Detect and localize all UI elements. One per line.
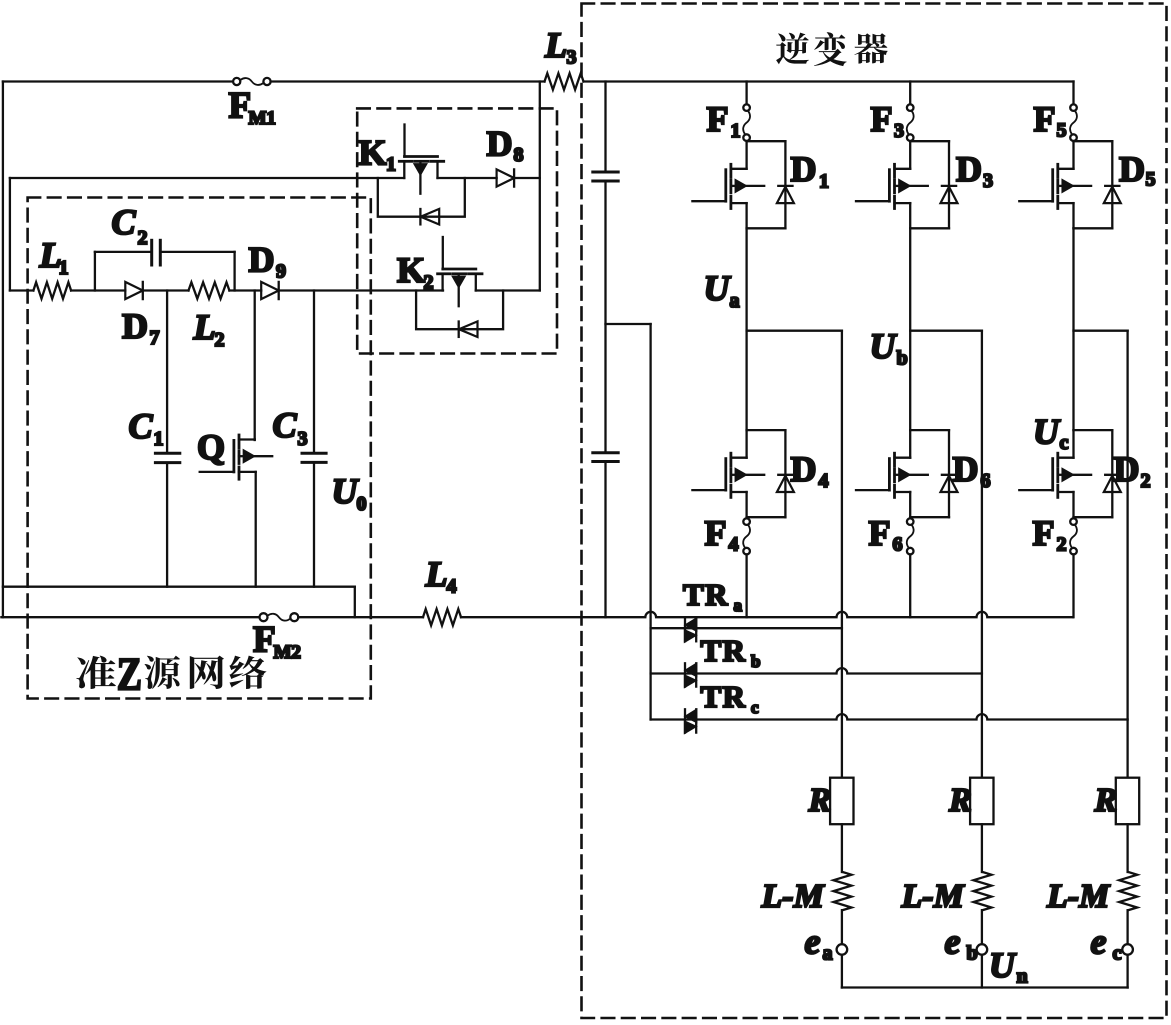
svg-text:2: 2 xyxy=(1057,534,1067,556)
svg-text:2: 2 xyxy=(1141,470,1151,492)
svg-text:b: b xyxy=(751,652,760,671)
svg-text:L: L xyxy=(193,307,216,347)
wire K2 to right vertical xyxy=(476,289,540,291)
transistor Q source wire xyxy=(255,472,257,587)
svg-text:U: U xyxy=(1033,412,1061,452)
wire triac feed column xyxy=(649,324,651,720)
svg-text:6: 6 xyxy=(893,534,903,556)
inductor L1 xyxy=(33,282,71,298)
wire C2 top left xyxy=(95,251,152,253)
wire leg a top lead xyxy=(745,82,747,105)
capacitor C2 xyxy=(150,240,153,265)
inductor L3 xyxy=(545,73,584,89)
inductor L-M phase a xyxy=(834,872,852,910)
svg-text:C: C xyxy=(129,406,154,446)
svg-text:F: F xyxy=(1033,513,1055,553)
svg-text:F: F xyxy=(707,99,729,139)
capacitor C1 xyxy=(155,452,179,455)
wire DC-link lower xyxy=(604,462,606,618)
triac TRc xyxy=(684,709,686,732)
svg-text:D: D xyxy=(953,449,979,489)
svg-text:U: U xyxy=(332,471,360,511)
wire triac row b with hop xyxy=(651,668,982,673)
svg-text:M1: M1 xyxy=(249,108,276,129)
svg-text:e: e xyxy=(1091,922,1107,962)
svg-text:Q: Q xyxy=(197,427,225,467)
fuse F4 xyxy=(743,518,750,525)
wire leg c top lead xyxy=(1072,82,1074,105)
wire R to L-M phase a xyxy=(841,824,843,872)
wire leg c bottom lead to DC- rail xyxy=(1072,554,1074,617)
svg-text:L: L xyxy=(544,25,567,65)
quasi-Z network dashed box xyxy=(28,198,371,699)
svg-text:K: K xyxy=(359,133,387,173)
fuse F2 xyxy=(1070,518,1077,525)
svg-text:5: 5 xyxy=(1146,169,1156,191)
wire phase a output xyxy=(747,330,842,332)
wire leg b top lead xyxy=(909,82,911,105)
capacitor C3 xyxy=(302,452,326,455)
svg-text:9: 9 xyxy=(276,261,286,283)
svg-text:D: D xyxy=(249,240,275,280)
capacitor DC-link upper xyxy=(593,171,618,174)
wire bus right edge xyxy=(354,587,356,618)
capacitor C1 branch xyxy=(166,291,168,454)
wire top DC+ rail continued xyxy=(271,80,545,82)
svg-text:L: L xyxy=(425,554,448,594)
svg-text:F: F xyxy=(253,620,276,661)
svg-text:a: a xyxy=(734,596,743,615)
wire bottom DC- rail left xyxy=(1,616,259,618)
source ec xyxy=(1122,944,1133,955)
wire load column a xyxy=(841,331,843,778)
svg-text:4: 4 xyxy=(729,534,739,556)
transistor leg b upper MOSFET xyxy=(909,141,911,169)
svg-text:D: D xyxy=(791,149,817,189)
transistor Q xyxy=(254,438,256,441)
svg-text:TR: TR xyxy=(683,577,729,612)
wire eb to neutral xyxy=(981,955,983,988)
wire C1 bottom xyxy=(166,463,168,587)
svg-text:L-M: L-M xyxy=(901,878,966,915)
svg-text:D: D xyxy=(1119,149,1145,189)
wire K1 input from node A xyxy=(10,177,404,179)
fuse F6 xyxy=(907,518,914,525)
transistor leg a lower MOSFET xyxy=(745,430,747,458)
wire capacitor midpoint tap xyxy=(606,323,651,325)
diode D9 xyxy=(261,282,279,299)
capacitor C3 branch xyxy=(313,291,315,454)
fuse FM1 xyxy=(233,78,240,85)
svg-text:1: 1 xyxy=(154,428,164,450)
triac TRa xyxy=(684,618,686,641)
svg-text:4: 4 xyxy=(447,576,457,598)
svg-text:R: R xyxy=(808,782,832,819)
wire D7 to L2 with node to C1 xyxy=(144,289,189,291)
inverter dashed box xyxy=(582,4,1167,1019)
svg-text:0: 0 xyxy=(357,493,367,515)
svg-text:L-M: L-M xyxy=(761,878,826,915)
wire triac row c with hops xyxy=(651,714,1128,719)
wire node A vertical xyxy=(9,178,11,291)
wire load column b xyxy=(981,331,983,778)
svg-text:1: 1 xyxy=(386,154,396,176)
wire load column c xyxy=(1126,331,1128,778)
wire right vertical of switch block xyxy=(539,82,541,291)
wire main row left xyxy=(10,289,34,291)
transistor K1 xyxy=(403,125,405,157)
svg-text:M2: M2 xyxy=(274,642,301,663)
diode D7 xyxy=(125,282,143,299)
wire DC-link upper xyxy=(604,82,606,173)
wire L-M to source ec xyxy=(1126,910,1128,944)
svg-text:F: F xyxy=(705,513,727,553)
capacitor C2 branch left xyxy=(94,252,96,291)
source eb xyxy=(977,944,988,955)
svg-text:a: a xyxy=(730,290,740,312)
wire leg a bottom lead to DC- rail xyxy=(745,554,747,617)
svg-text:c: c xyxy=(1113,943,1122,965)
svg-text:K: K xyxy=(397,250,425,290)
svg-text:R: R xyxy=(1094,782,1118,819)
transistor K2 xyxy=(442,237,444,269)
svg-text:R: R xyxy=(948,782,972,819)
capacitor DC-link lower xyxy=(593,451,618,454)
label quasi-Z source network 准Z源网络 xyxy=(76,656,115,689)
wire D9 to K2 xyxy=(279,289,443,291)
resistor R phase a xyxy=(830,778,853,825)
diode D5 is drawn inside the cell above; phase column wire xyxy=(1072,228,1074,430)
svg-text:1: 1 xyxy=(731,120,741,142)
svg-text:Z: Z xyxy=(117,649,142,701)
label inverter 逆变器 xyxy=(776,33,809,65)
svg-text:3: 3 xyxy=(298,428,308,450)
wire L1 to D7 xyxy=(71,289,125,291)
wire C2 top right xyxy=(160,251,234,253)
diode D1 is drawn inside the cell above; phase column wire xyxy=(745,228,747,430)
svg-text:C: C xyxy=(273,405,298,445)
svg-text:D: D xyxy=(487,124,513,164)
resistor R phase c xyxy=(1116,778,1139,825)
wire phase c output xyxy=(1074,330,1128,332)
svg-text:2: 2 xyxy=(215,329,225,351)
wire top rail into inverter xyxy=(584,80,1074,82)
resistor R phase b xyxy=(970,778,993,825)
wire neutral Un line xyxy=(842,986,1128,988)
svg-text:b: b xyxy=(897,348,908,370)
wire K1 to D8 xyxy=(438,177,497,179)
svg-text:1: 1 xyxy=(59,257,69,279)
wire D8 to right vertical xyxy=(514,177,540,179)
wire FM2 to L4 xyxy=(298,616,423,618)
transistor leg c lower MOSFET xyxy=(1072,430,1074,458)
svg-text:e: e xyxy=(805,922,821,962)
svg-text:L-M: L-M xyxy=(1046,878,1111,915)
wire leg b bottom lead to DC- rail xyxy=(909,554,911,617)
wire top DC+ rail xyxy=(3,80,233,82)
svg-text:U: U xyxy=(989,945,1017,985)
svg-text:U: U xyxy=(870,326,898,366)
svg-text:c: c xyxy=(1060,432,1069,454)
wire R to L-M phase b xyxy=(981,824,983,872)
svg-text:D: D xyxy=(122,306,148,346)
transistor leg a upper MOSFET xyxy=(745,141,747,169)
svg-text:a: a xyxy=(823,943,833,965)
wire triac row a xyxy=(651,627,842,629)
svg-text:3: 3 xyxy=(983,170,993,192)
diode D3 is drawn inside the cell above; phase column wire xyxy=(909,228,911,430)
inductor L2 xyxy=(189,282,230,298)
svg-text:F: F xyxy=(869,513,891,553)
svg-text:e: e xyxy=(945,922,961,962)
wire DC-link middle xyxy=(604,181,606,453)
transistor leg b lower MOSFET xyxy=(909,430,911,458)
transistor Q drain wire xyxy=(254,291,256,440)
transistor leg c upper MOSFET xyxy=(1072,141,1074,169)
wire ec to neutral xyxy=(1126,955,1128,988)
svg-text:2: 2 xyxy=(424,272,434,294)
switch block dashed box xyxy=(357,108,557,353)
wire C3 bottom xyxy=(313,462,315,586)
svg-text:c: c xyxy=(751,698,759,717)
svg-text:1: 1 xyxy=(819,171,829,193)
capacitor C2 branch right xyxy=(233,252,235,291)
inductor L-M phase c xyxy=(1119,872,1137,910)
svg-text:U: U xyxy=(704,268,732,308)
wire R to L-M phase c xyxy=(1126,824,1128,872)
svg-text:8: 8 xyxy=(514,144,524,166)
fuse F5 xyxy=(1070,104,1077,111)
svg-text:7: 7 xyxy=(150,327,160,349)
fuse F1 xyxy=(743,104,750,111)
wire bottom DC- rail into inverter with hops xyxy=(461,612,1073,617)
svg-text:n: n xyxy=(1017,966,1028,988)
wire phase b output xyxy=(910,330,982,332)
svg-text:C: C xyxy=(112,202,137,242)
wire L-M to source ea xyxy=(841,910,843,944)
inductor L4 xyxy=(423,609,461,625)
wire L-M to source eb xyxy=(981,910,983,944)
wire L2 to D9 xyxy=(229,289,261,291)
svg-text:3: 3 xyxy=(567,47,577,69)
svg-text:F: F xyxy=(1034,99,1056,139)
svg-text:TR: TR xyxy=(701,679,747,714)
svg-text:D: D xyxy=(956,149,982,189)
wire left source rail xyxy=(2,82,4,618)
fuse FM2 xyxy=(260,613,268,621)
source ea xyxy=(837,944,848,955)
diode D8 xyxy=(497,169,514,186)
wire ea to neutral xyxy=(841,955,843,988)
fuse F3 xyxy=(907,104,914,111)
svg-text:2: 2 xyxy=(138,227,148,249)
svg-text:TR: TR xyxy=(701,633,747,668)
svg-text:F: F xyxy=(871,99,893,139)
svg-text:5: 5 xyxy=(1057,120,1067,142)
inductor L-M phase b xyxy=(974,872,992,910)
svg-text:D: D xyxy=(791,449,817,489)
wire bottom bus of quasi-Z network xyxy=(3,586,355,588)
triac TRb xyxy=(684,663,686,686)
svg-text:b: b xyxy=(967,943,978,965)
svg-text:4: 4 xyxy=(819,470,829,492)
svg-text:3: 3 xyxy=(894,120,904,142)
